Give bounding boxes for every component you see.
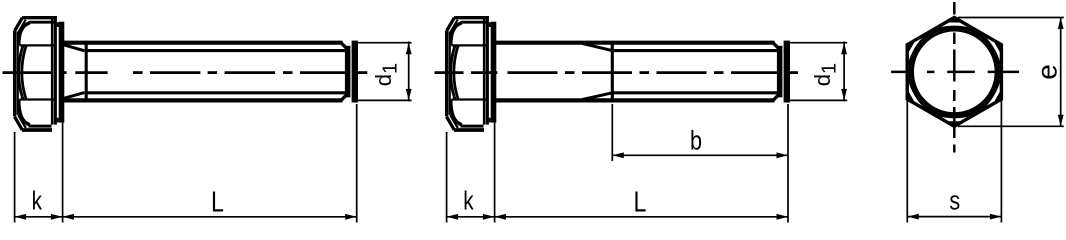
bolt 1 washer face bbox=[59, 22, 65, 123]
bolt 2 head central facet arc inner bbox=[454, 45, 458, 99]
bolt 2 d1 extension line top bbox=[785, 42, 848, 44]
svg-text:s: s bbox=[949, 186, 960, 216]
bolt 2 shank bottom outline bbox=[492, 98, 775, 102]
bolt 2 b dimension line bbox=[612, 154, 788, 156]
bolt 2 head bottom edge bbox=[454, 128, 484, 132]
hex e arrow down bbox=[1058, 115, 1064, 127]
bolt 2 thread runout diagonal top bbox=[583, 44, 613, 51]
bolt 2 head inner top face line bbox=[461, 21, 488, 24]
bolt 2 washer face top cap bbox=[489, 22, 491, 27]
bolt 2 tip chamfer top bbox=[773, 43, 779, 49]
bolt 1 shank top outline bbox=[60, 41, 343, 45]
hex e extension line top bbox=[958, 17, 1064, 19]
hex view horizontal centerline bbox=[891, 71, 911, 74]
svg-text:L: L bbox=[634, 185, 647, 218]
svg-text:b: b bbox=[690, 126, 702, 156]
bolt 2 L arrow left bbox=[494, 214, 506, 220]
bolt 2 k arrow left bbox=[447, 214, 459, 220]
bolt 1 k extension line left bbox=[14, 132, 16, 223]
bolt 2 head bottom chamfer bbox=[447, 117, 455, 130]
bolt 2 head inner top chamfer line bbox=[450, 20, 458, 33]
svg-text:d1: d1 bbox=[371, 63, 402, 86]
hex s arrow right bbox=[990, 214, 1002, 220]
bolt 1 head top chamfer bbox=[15, 18, 23, 31]
bolt 2 head facet line lower bbox=[452, 98, 488, 100]
bolt 1 thread runout diagonal bottom bbox=[61, 93, 85, 100]
bolt 1 k arrow right bbox=[51, 214, 63, 220]
bolt 2 centerline bbox=[435, 71, 464, 74]
bolt 2 head inner bottom face line bbox=[461, 125, 484, 128]
bolt 1 centerline bbox=[3, 71, 53, 74]
bolt 2 d1 dimension line bbox=[843, 42, 845, 102]
bolt 2 b extension line left bbox=[611, 104, 613, 161]
bolt 1 head bottom corner chamfer arc bbox=[19, 100, 30, 125]
hex s extension line right bbox=[1000, 101, 1002, 223]
hex s extension line left bbox=[906, 101, 908, 223]
bolt 2 kL dimension line bbox=[447, 216, 788, 218]
bolt 2 tip chamfer circle edge bbox=[777, 46, 783, 98]
bolt 1 d1 arrow down bbox=[406, 89, 412, 101]
bolt 1 d1 extension line bottom bbox=[353, 99, 412, 101]
bolt 1 head inner left line bbox=[17, 32, 19, 115]
bolt 1 thread minor line top bbox=[86, 49, 346, 52]
bolt 1 thread runout line bbox=[85, 41, 88, 102]
bolt 2 tip chamfer bottom bbox=[773, 95, 779, 101]
bolt 1 head top corner chamfer arc bbox=[19, 23, 30, 46]
bolt 1 thread runout diagonal top bbox=[61, 44, 85, 51]
bolt 2 head inner left line bbox=[449, 32, 451, 115]
bolt 1 head central facet arc outer bbox=[19, 45, 23, 99]
hex s dimension line bbox=[907, 216, 1001, 218]
bolt 1 washer face top cap bbox=[57, 22, 59, 27]
bolt 1 L arrow left bbox=[62, 214, 74, 220]
hex e extension line bottom bbox=[958, 125, 1064, 127]
hex view vertex fills bbox=[946, 18, 963, 23]
bolt 1 shank bottom outline bbox=[60, 98, 343, 102]
bolt 1 head inner top face line bbox=[29, 21, 56, 24]
bolt 2 d1 extension line bottom bbox=[785, 99, 848, 101]
bolt 1 head central facet arc inner bbox=[22, 45, 26, 99]
bolt 2 thread runout diagonal bottom bbox=[583, 93, 613, 100]
bolt 1 thread minor line bottom bbox=[86, 91, 346, 94]
bolt 1 head inner bottom chamfer line bbox=[18, 115, 26, 128]
hex e arrow up bbox=[1058, 18, 1064, 30]
bolt 1 d1 dimension line bbox=[408, 42, 410, 102]
bolt 1 tip end face bbox=[352, 41, 358, 103]
bolt 1 head inner top chamfer line bbox=[18, 20, 26, 33]
bolt 1 head right edge outer bbox=[54, 16, 57, 125]
bolt 2 k arrow right bbox=[483, 214, 495, 220]
bolt 1 tip chamfer top bbox=[341, 43, 347, 49]
bolt 2 k extension line left bbox=[446, 132, 448, 223]
hex view outer hexagon bbox=[907, 18, 1001, 127]
bolt 2 head bottom corner chamfer arc bbox=[451, 100, 462, 125]
hex e dimension line bbox=[1060, 18, 1062, 127]
bolt 2 thread minor line bottom bbox=[612, 91, 777, 94]
bolt 2 head top chamfer bbox=[447, 18, 455, 31]
bolt 2 head central facet arc outer bbox=[451, 45, 455, 99]
bolt 2 b arrow right bbox=[777, 152, 789, 158]
bolt 2 head right edge outer bbox=[486, 16, 489, 125]
svg-text:e: e bbox=[1031, 64, 1062, 80]
bolt 2 head facet line upper bbox=[452, 44, 488, 46]
bolt 1 k arrow left bbox=[15, 214, 27, 220]
bolt 2 head top corner chamfer arc bbox=[451, 23, 462, 46]
bolt 2 head right edge inner bbox=[483, 16, 486, 125]
bolt 1 head left edge bbox=[13, 31, 16, 117]
hex view inner flat lines bbox=[969, 30, 983, 38]
bolt 2 shank top outline bbox=[492, 41, 775, 45]
bolt 1 head top edge bbox=[22, 16, 56, 19]
bolt 2 b arrow left bbox=[612, 152, 624, 158]
hex view inscribed chamfer circle bbox=[913, 30, 997, 114]
bolt 2 tip end face bbox=[784, 41, 790, 103]
bolt 1 kL dimension line bbox=[15, 216, 357, 218]
bolt 1 d1 extension line top bbox=[353, 42, 412, 44]
bolt 1 tip chamfer circle edge bbox=[345, 46, 351, 98]
bolt 1 head bottom edge bbox=[22, 128, 52, 132]
hex view corner chamfer arcs bbox=[939, 28, 970, 30]
bolt 2 washer face bbox=[491, 22, 497, 123]
bolt 2 thread runout line bbox=[611, 41, 614, 102]
hex view vertical centerline bbox=[953, 2, 956, 15]
bolt 1 head facet line upper bbox=[20, 44, 56, 46]
bolt 1 d1 arrow up bbox=[406, 43, 412, 55]
svg-text:d1: d1 bbox=[810, 63, 841, 86]
bolt 1 L arrow right bbox=[345, 214, 357, 220]
bolt 2 b extension line right bbox=[787, 104, 789, 223]
bolt 1 head inner bottom face line bbox=[29, 125, 52, 128]
bolt 1 tip chamfer bottom bbox=[341, 95, 347, 101]
svg-text:k: k bbox=[463, 186, 474, 215]
bolt 2 d1 arrow up bbox=[841, 43, 847, 55]
bolt 2 head left edge bbox=[445, 31, 448, 117]
svg-text:k: k bbox=[32, 186, 43, 215]
bolt 1 L extension line right bbox=[356, 104, 358, 223]
bolt 2 washer face bottom cap bbox=[489, 118, 491, 123]
bolt 2 head inner bottom chamfer line bbox=[450, 115, 458, 128]
bolt 2 d1 arrow down bbox=[841, 89, 847, 101]
bolt 2 thread minor line top bbox=[612, 49, 777, 52]
bolt 2 head top edge bbox=[454, 16, 488, 19]
bolt 1 head bottom chamfer bbox=[15, 117, 23, 130]
bolt 1 head right edge inner bbox=[51, 16, 54, 125]
svg-text:L: L bbox=[211, 185, 224, 218]
bolt 2 L arrow right bbox=[777, 214, 789, 220]
bolt 1 k extension line right bbox=[62, 123, 64, 223]
hex s arrow left bbox=[907, 214, 919, 220]
bolt 1 head facet line lower bbox=[20, 98, 56, 100]
bolt 2 k extension line right bbox=[494, 123, 496, 223]
bolt 1 washer face bottom cap bbox=[57, 118, 59, 123]
